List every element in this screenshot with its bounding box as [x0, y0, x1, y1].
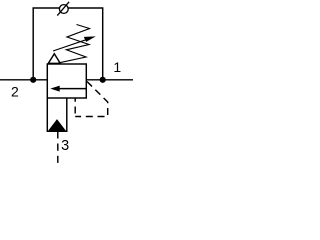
svg-text:1: 1: [113, 59, 121, 75]
svg-text:3: 3: [61, 138, 69, 154]
svg-text:2: 2: [11, 84, 19, 100]
